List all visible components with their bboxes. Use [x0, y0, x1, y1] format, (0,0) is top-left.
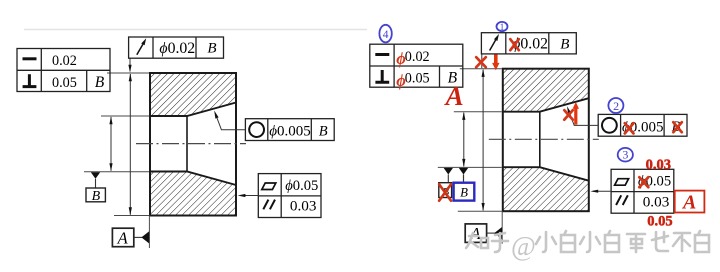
runout symbol [137, 44, 143, 55]
svg-text:B: B [95, 74, 105, 91]
part upper hatch [150, 73, 236, 116]
centerline [136, 143, 246, 145]
red cross over phi in runout frame [510, 39, 519, 50]
FCF straightness/perpendicularity frame [17, 49, 110, 92]
bore lower edge (right) [503, 167, 589, 181]
extension line bore lower [84, 171, 149, 173]
extension line top (right) [460, 68, 502, 70]
faint divider line [24, 29, 367, 31]
FCF circularity frame [214, 111, 334, 141]
leader from runout frame, no arrowhead (right) [481, 54, 483, 68]
svg-text:A: A [444, 81, 464, 111]
straightness symbol [23, 57, 37, 60]
extension line top [107, 72, 149, 74]
svg-text:2: 2 [613, 99, 619, 113]
red cross over phi in flatness frame [639, 177, 648, 187]
leader to right face [240, 195, 258, 197]
glyph xiao 1 [536, 232, 556, 252]
dimension line overall height [129, 74, 131, 215]
parallelism symbol (right) [616, 195, 628, 205]
perpendicularity symbol (right) [375, 70, 389, 82]
centerline (right) [489, 138, 599, 140]
leader from runout frame [129, 58, 131, 71]
dimension line overall height (right) [482, 70, 484, 211]
svg-text:1: 1 [500, 23, 505, 33]
datum A (right) [465, 224, 502, 243]
svg-text:0.03: 0.03 [290, 198, 317, 215]
part lower hatch [150, 172, 236, 216]
svg-text:B: B [319, 123, 328, 139]
svg-text:ϕ0.05: ϕ0.05 [285, 178, 318, 194]
svg-text:ϕ0.005: ϕ0.005 [269, 124, 311, 140]
extension line bottom [114, 215, 149, 217]
red cross over wrong datum B [439, 184, 451, 201]
extension line left face below [148, 216, 150, 249]
leader to cone [217, 118, 245, 130]
blue circled 2 [608, 98, 623, 113]
svg-text:B: B [92, 189, 101, 204]
FCF straightness/perpendicularity frame (right) [370, 44, 463, 87]
svg-text:0.05: 0.05 [647, 214, 672, 230]
svg-text:ϕ: ϕ [396, 71, 406, 90]
extension line left face below (right) [501, 211, 503, 244]
svg-text:@: @ [511, 231, 536, 261]
glyph zhi [466, 233, 488, 248]
bore step edge [186, 116, 188, 172]
red mark: corrected cone arrow (thick, up) [573, 102, 579, 125]
FCF circular runout frame (right) [481, 33, 576, 54]
part outline [150, 73, 236, 216]
flatness symbol [262, 183, 276, 190]
glyph ye [652, 232, 668, 251]
svg-text:ϕ: ϕ [396, 49, 406, 68]
red datum A box added to parallelism [675, 191, 705, 214]
straightness symbol (right) [375, 53, 389, 56]
svg-text:B: B [560, 36, 569, 52]
svg-text:A: A [681, 191, 696, 213]
extension line bore upper [101, 115, 149, 117]
FCF circular runout frame [129, 37, 224, 58]
FCF flatness/parallelism frame [238, 174, 321, 218]
leader to cone (right) [570, 114, 598, 126]
glyph bai 2 [605, 231, 619, 252]
perpendicularity symbol [23, 74, 37, 86]
svg-text:ϕ0.02: ϕ0.02 [159, 40, 195, 57]
svg-text:0.03: 0.03 [646, 157, 671, 173]
datum B original, crossed out (right) [439, 168, 453, 198]
glyph bai 3 [695, 231, 709, 252]
flatness symbol (right) [615, 179, 629, 186]
datum B [86, 172, 105, 204]
bore lower edge [150, 172, 236, 186]
leader to right face (right) [593, 190, 611, 192]
part lower hatch (right) [503, 167, 589, 211]
bore step edge (right) [539, 112, 541, 168]
svg-text:B: B [207, 41, 216, 57]
red cross over datum B in circularity frame [673, 122, 682, 132]
svg-text:4: 4 [383, 29, 389, 41]
svg-text:B: B [460, 186, 468, 200]
runout symbol (right) [490, 40, 496, 51]
parallelism symbol [263, 200, 275, 210]
glyph hu [492, 233, 508, 252]
bore upper edge [150, 103, 236, 117]
bore upper edge (right) [503, 98, 589, 112]
circularity symbol [249, 122, 264, 137]
red cross over phi in circularity frame [625, 123, 634, 133]
dimension line small bore (right) [463, 113, 465, 167]
watermark 知乎 @小白小白再也不白 [466, 233, 508, 252]
FCF flatness/parallelism frame (right) [590, 169, 673, 213]
datum A [112, 228, 149, 247]
part outline (right) [503, 69, 589, 212]
svg-text:0.02: 0.02 [52, 53, 77, 69]
extension line bore upper (right) [454, 111, 502, 113]
dimension line small bore [110, 117, 112, 171]
extension line bore lower (right) [438, 166, 502, 168]
svg-text:0.05: 0.05 [405, 71, 430, 87]
glyph xiao 2 [580, 232, 600, 252]
svg-text:3: 3 [622, 148, 628, 162]
datum B corrected with blue box (right) [454, 168, 475, 201]
red mark: corrected leader arrow (thick, down) [492, 55, 499, 71]
blue circled 4 [379, 25, 391, 43]
extension line bottom (right) [458, 210, 502, 212]
blue circled 3 [618, 148, 633, 162]
red mark: cross at runout leader junction [476, 57, 486, 67]
circularity symbol (right) [602, 118, 617, 133]
red cross at cone leader arrow [564, 110, 573, 120]
svg-text:A: A [117, 228, 129, 247]
glyph bu [673, 233, 690, 251]
FCF circularity frame (right) [567, 106, 687, 136]
glyph zai [627, 234, 645, 252]
svg-text:0.02: 0.02 [405, 49, 430, 65]
part upper hatch (right) [503, 69, 589, 112]
svg-text:0.03: 0.03 [643, 193, 670, 210]
svg-text:0.05: 0.05 [52, 75, 77, 91]
glyph bai 1 [561, 231, 575, 252]
blue circled 1 [497, 22, 508, 33]
